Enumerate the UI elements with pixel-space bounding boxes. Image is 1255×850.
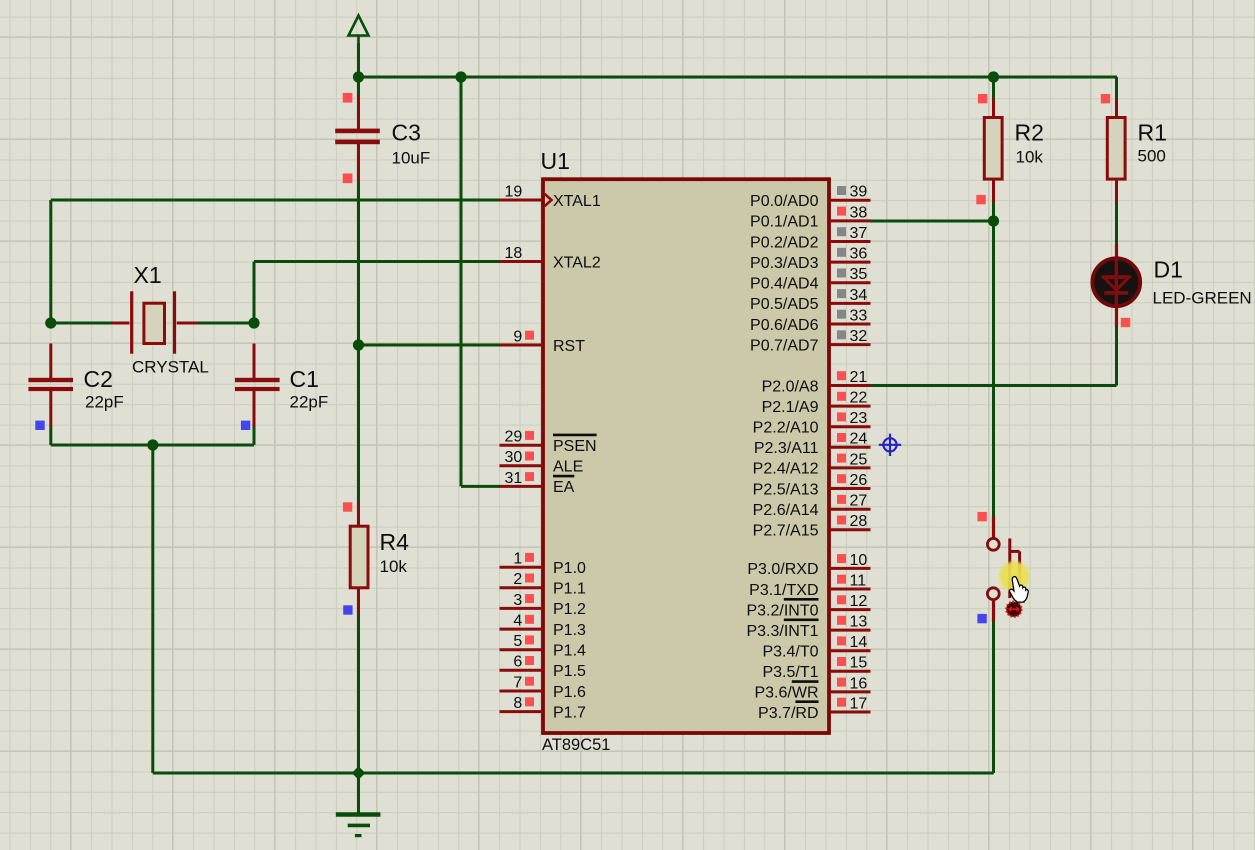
svg-text:P3.1/TXD: P3.1/TXD [749, 582, 818, 599]
push button [987, 517, 1019, 622]
svg-text:P0.2/AD2: P0.2/AD2 [750, 234, 819, 251]
svg-text:XTAL1: XTAL1 [553, 193, 601, 210]
wire C3 top [357, 77, 360, 96]
power symbol VCC arrow [349, 16, 369, 46]
pin 8 P1.7 (left) [500, 695, 587, 721]
C3 top pin state square (red) [343, 93, 353, 103]
svg-text:EA: EA [553, 479, 575, 496]
pin 30 ALE (left) [500, 449, 584, 475]
svg-text:2: 2 [513, 571, 522, 588]
svg-text:32: 32 [850, 328, 868, 345]
pin 24 P2.3/A11 (right) [754, 431, 871, 457]
pin 7 P1.6 (left) [500, 674, 587, 700]
wire top power rail [359, 76, 1118, 79]
node junction R2 rail tap [988, 71, 999, 82]
crosshair origin cursor [879, 434, 901, 456]
pin 33 P0.6/AD6 (right) [750, 307, 870, 333]
pin 9 RST (left) [500, 328, 586, 354]
pin 39 P0.0/AD0 (right) [750, 184, 870, 210]
pin 25 P2.4/A12 (right) [753, 451, 871, 477]
pin 35 P0.4/AD4 (right) [750, 266, 870, 292]
svg-text:P0.4/AD4: P0.4/AD4 [750, 276, 819, 293]
node junction EA rail tap [455, 71, 466, 82]
svg-text:P1.5: P1.5 [553, 663, 586, 680]
svg-text:ALE: ALE [553, 459, 583, 476]
pin 5 P1.4 (left) [500, 633, 587, 659]
svg-text:C1: C1 [290, 366, 319, 392]
wire C2 bottom drop [49, 426, 52, 445]
svg-text:34: 34 [850, 287, 868, 304]
push button top pin state square (red) [977, 512, 986, 521]
svg-text:33: 33 [850, 307, 868, 324]
svg-text:P3.3/INT1: P3.3/INT1 [746, 623, 818, 640]
pin 27 P2.6/A14 (right) [753, 493, 871, 519]
svg-text:XTAL2: XTAL2 [553, 254, 601, 271]
svg-text:P0.0/AD0: P0.0/AD0 [750, 193, 819, 210]
op-amp U1 body (AT89C51 microcontroller) [543, 179, 829, 733]
svg-text:26: 26 [850, 472, 868, 489]
svg-text:28: 28 [850, 513, 868, 530]
wire XTAL1 net [51, 200, 500, 323]
svg-text:15: 15 [850, 655, 868, 672]
pin 29 PSEN (left) [500, 429, 597, 455]
svg-text:R2: R2 [1015, 120, 1044, 146]
svg-text:23: 23 [850, 410, 868, 427]
svg-text:C2: C2 [84, 366, 113, 392]
svg-text:22pF: 22pF [290, 393, 329, 412]
svg-text:24: 24 [850, 431, 868, 448]
svg-text:P3.2/INT0: P3.2/INT0 [746, 602, 818, 619]
svg-text:500: 500 [1138, 147, 1166, 166]
svg-text:AT89C51: AT89C51 [542, 736, 610, 754]
svg-text:P1.3: P1.3 [553, 622, 586, 639]
svg-text:P0.1/AD1: P0.1/AD1 [750, 214, 819, 231]
svg-text:P0.6/AD6: P0.6/AD6 [750, 317, 819, 334]
svg-text:RST: RST [553, 338, 585, 355]
wire R4 bottom drop [357, 614, 360, 773]
ground symbol [336, 815, 381, 836]
pin 26 P2.5/A13 (right) [753, 472, 871, 498]
svg-text:10k: 10k [1016, 148, 1044, 167]
pin 6 P1.5 (left) [500, 654, 587, 680]
svg-text:P3.5/T1: P3.5/T1 [762, 664, 818, 681]
svg-text:14: 14 [850, 634, 868, 651]
pin 34 P0.5/AD5 (right) [750, 287, 870, 313]
resistor R1 [1107, 99, 1125, 203]
svg-text:P0.5/AD5: P0.5/AD5 [750, 296, 819, 313]
pin 14 P3.4/T0 (right) [762, 634, 870, 660]
svg-text:35: 35 [850, 266, 868, 283]
wire XTAL2 net [254, 262, 500, 324]
wire button top drop [992, 221, 995, 517]
svg-text:R1: R1 [1138, 120, 1167, 146]
pin 12 P3.2/INT0 (right) [746, 593, 870, 619]
wire bottom ground rail [153, 772, 994, 775]
pin 16 P3.6/WR (right) [754, 675, 870, 701]
svg-text:27: 27 [850, 493, 868, 510]
wire crystal right segment [197, 322, 255, 325]
crystal X1 [111, 291, 197, 353]
svg-text:P2.2/A10: P2.2/A10 [753, 420, 819, 437]
wire pin21 to LED [870, 326, 1117, 386]
C2 bottom pin state square (blue) [35, 421, 44, 430]
svg-text:1: 1 [513, 551, 522, 568]
svg-text:38: 38 [850, 204, 868, 221]
svg-text:17: 17 [850, 695, 868, 712]
pin 22 P2.1/A9 (right) [762, 390, 871, 416]
pin 13 P3.3/INT1 (right) [746, 614, 870, 640]
node junction power-C3 [353, 71, 364, 82]
svg-text:P2.5/A13: P2.5/A13 [753, 481, 819, 498]
wire R2 top drop [992, 77, 995, 99]
svg-text:6: 6 [513, 654, 522, 671]
svg-text:X1: X1 [134, 262, 162, 288]
svg-text:3: 3 [513, 592, 522, 609]
svg-text:P0.7/AD7: P0.7/AD7 [750, 337, 819, 354]
svg-text:CRYSTAL: CRYSTAL [132, 358, 209, 377]
node junction ground rail tap [352, 766, 366, 780]
pin 31 EA (left) [500, 470, 575, 496]
svg-text:P1.7: P1.7 [553, 704, 586, 721]
svg-text:12: 12 [850, 593, 868, 610]
svg-text:P1.6: P1.6 [553, 684, 586, 701]
interactive highlight glow [998, 560, 1032, 594]
pin 38 P0.1/AD1 (right) [750, 204, 870, 230]
pin 15 P3.5/T1 (right) [762, 655, 870, 681]
svg-text:4: 4 [513, 613, 522, 630]
resistor R4 [350, 502, 368, 615]
capacitor C3 [335, 95, 380, 181]
wire R1 top drop [1115, 77, 1118, 99]
svg-text:22: 22 [850, 390, 868, 407]
svg-text:P0.3/AD3: P0.3/AD3 [750, 255, 819, 272]
wire crystal ground link [51, 444, 254, 447]
pin 10 P3.0/RXD (right) [747, 552, 870, 578]
resistor R2 [984, 99, 1002, 203]
svg-text:P2.1/A9: P2.1/A9 [762, 399, 819, 416]
LED D1 [1092, 244, 1140, 327]
svg-text:P2.3/A11: P2.3/A11 [754, 440, 819, 457]
svg-text:P2.6/A14: P2.6/A14 [753, 502, 819, 519]
svg-text:P3.6/WR: P3.6/WR [754, 685, 818, 702]
pin 37 P0.2/AD2 (right) [750, 225, 870, 251]
wire C3 bottom to R4 top [357, 181, 360, 503]
capacitor C2 [28, 344, 73, 427]
svg-text:7: 7 [513, 674, 522, 691]
svg-text:P2.7/A15: P2.7/A15 [753, 523, 819, 540]
svg-text:D1: D1 [1154, 256, 1183, 282]
wire C1 bottom drop [253, 426, 256, 445]
hand cursor [1009, 577, 1028, 603]
svg-text:22pF: 22pF [85, 393, 124, 412]
svg-text:18: 18 [505, 245, 523, 262]
wire R1 bottom to LED top [1115, 201, 1118, 245]
svg-text:10uF: 10uF [392, 148, 431, 167]
svg-text:P3.0/RXD: P3.0/RXD [747, 561, 818, 578]
svg-text:30: 30 [505, 449, 523, 466]
svg-text:10: 10 [850, 552, 868, 569]
svg-text:R4: R4 [380, 529, 410, 555]
C3 bottom pin state square (red) [343, 174, 353, 184]
svg-text:13: 13 [850, 614, 868, 631]
R2 bottom pin state square (red) [976, 195, 985, 204]
wire ground stub [357, 773, 360, 814]
node junction pin38-R2-button [988, 215, 999, 226]
svg-text:P3.7/RD: P3.7/RD [758, 705, 818, 722]
pin 4 P1.3 (left) [500, 613, 587, 639]
wire left ground drop [151, 445, 154, 773]
wire crystal left segment [51, 322, 112, 325]
wire button bottom drop [992, 621, 995, 773]
pin 19 XTAL1 (left) [500, 183, 601, 209]
svg-text:P3.4/T0: P3.4/T0 [762, 644, 818, 661]
pin 21 P2.0/A8 (right) [762, 369, 871, 395]
R4 top pin state square (red) [343, 502, 352, 511]
svg-text:16: 16 [850, 675, 868, 692]
svg-text:P1.2: P1.2 [553, 601, 586, 618]
capacitor C1 [235, 344, 280, 427]
svg-text:8: 8 [513, 695, 522, 712]
svg-text:P2.0/A8: P2.0/A8 [762, 378, 819, 395]
D1 bottom pin state square (red) [1121, 318, 1130, 327]
node junction XTAL1-C2 [45, 317, 56, 328]
R2 top pin state square (red) [978, 94, 987, 103]
svg-text:11: 11 [850, 572, 867, 589]
wire RST net [359, 344, 501, 347]
node junction RST-C3-R4 [353, 339, 364, 350]
svg-text:P1.0: P1.0 [553, 560, 586, 577]
node junction crystal ground [147, 439, 158, 450]
actuator press target marker [1006, 602, 1021, 617]
push button bottom pin state square (blue) [977, 614, 986, 623]
svg-text:U1: U1 [541, 148, 570, 174]
pin 23 P2.2/A10 (right) [753, 410, 871, 436]
R1 top pin state square (red) [1101, 94, 1110, 103]
svg-text:21: 21 [850, 369, 868, 386]
svg-text:25: 25 [850, 451, 868, 468]
pin 32 P0.7/AD7 (right) [750, 328, 870, 354]
pin 1 P1.0 (left) [500, 551, 587, 577]
C1 bottom pin state square (blue) [241, 421, 250, 430]
svg-text:LED-GREEN: LED-GREEN [1153, 289, 1252, 308]
svg-text:29: 29 [505, 429, 523, 446]
pin 36 P0.3/AD3 (right) [750, 246, 870, 272]
svg-text:31: 31 [505, 470, 523, 487]
svg-text:37: 37 [850, 225, 868, 242]
wire pin38 to R2 bottom [870, 203, 994, 222]
R4 bottom pin state square (blue) [343, 605, 352, 614]
pin 18 XTAL2 (left) [500, 245, 601, 271]
pin 28 P2.7/A15 (right) [753, 513, 871, 539]
svg-text:P1.4: P1.4 [553, 643, 586, 660]
svg-text:C3: C3 [392, 120, 421, 146]
svg-text:P2.4/A12: P2.4/A12 [753, 461, 819, 478]
svg-text:5: 5 [513, 633, 522, 650]
wire power drop to rail [357, 43, 360, 77]
wire EA tie-high vertical [461, 77, 500, 486]
pin 3 P1.2 (left) [500, 592, 587, 618]
pin 2 P1.1 (left) [500, 571, 587, 597]
svg-text:P1.1: P1.1 [553, 581, 586, 598]
svg-text:36: 36 [850, 246, 868, 263]
svg-text:10k: 10k [380, 557, 408, 576]
svg-text:9: 9 [513, 328, 522, 345]
pin 17 P3.7/RD (right) [758, 695, 870, 721]
svg-text:PSEN: PSEN [553, 438, 597, 455]
svg-text:39: 39 [850, 184, 868, 201]
pin 11 P3.1/TXD (right) [749, 572, 870, 598]
svg-text:19: 19 [505, 183, 523, 200]
node junction XTAL2-C1 [248, 317, 259, 328]
